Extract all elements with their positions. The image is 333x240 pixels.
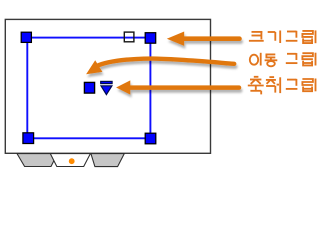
corner grip top-right	[145, 33, 156, 44]
arrow to move grip	[86, 59, 234, 75]
syllable 크 (line 1)	[249, 31, 264, 41]
syllable 동 (line 2)	[265, 54, 278, 66]
syllable 이 (line 2)	[250, 53, 261, 66]
word 그립 (line 3)	[286, 79, 316, 92]
layout tab: active (white) tab	[50, 154, 90, 167]
scale grip: top bar	[101, 81, 112, 83]
move grip (blue square)	[84, 82, 94, 93]
syllable 기 (line 1)	[268, 31, 281, 44]
arrow to size grip	[167, 32, 240, 46]
scale grip: triangle	[101, 86, 112, 95]
corner grip bottom-left	[23, 133, 34, 144]
corner grip bottom-right	[145, 133, 156, 144]
orange dot on active tab	[69, 158, 75, 164]
corner grip top-left	[21, 32, 31, 42]
arrow to scale grip	[116, 80, 239, 94]
layout tab: left gray tab	[17, 154, 58, 167]
label text (drawn Hangul glyphs), orange	[248, 30, 316, 94]
word 그립 (line 1)	[286, 30, 316, 43]
viewport rectangle (blue)	[27, 38, 150, 139]
size grip (white square)	[124, 32, 134, 42]
layout tab: right gray tab	[91, 154, 124, 167]
paper / layout area	[5, 19, 210, 153]
syllable 축 (line 3)	[248, 77, 264, 95]
word 그립 (line 2)	[286, 53, 316, 66]
syllable 척 (line 3)	[266, 77, 280, 93]
